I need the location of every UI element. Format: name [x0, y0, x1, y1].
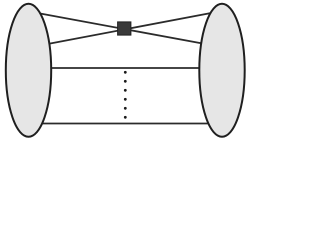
wire: middle horizontal link: [40, 67, 210, 69]
node: dark square at link crossing: [118, 22, 131, 35]
node: right ellipse: [199, 4, 244, 137]
vertical dotted ellipsis: [124, 71, 127, 119]
wire: bottom horizontal link: [36, 123, 213, 125]
wire: upper crossing link (left-top to right-bottom): [32, 12, 210, 45]
node: left ellipse: [6, 4, 51, 137]
wire: lower crossing link (left-bottom to right-top): [39, 12, 217, 46]
